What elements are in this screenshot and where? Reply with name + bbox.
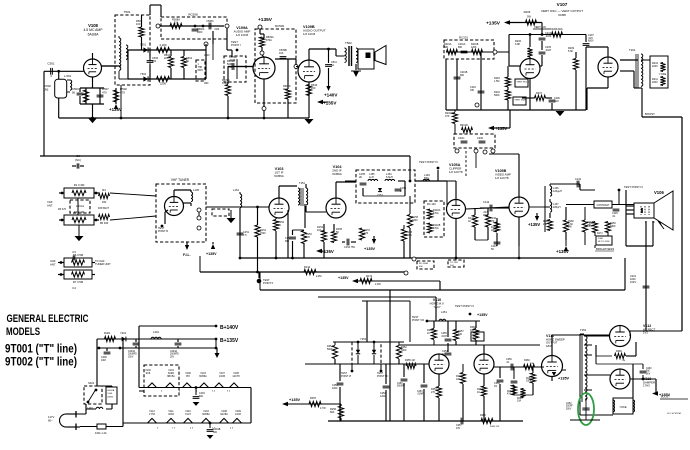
svg-text:1N: 1N [494,385,497,388]
svg-text:ANT.: ANT. [50,262,56,266]
svg-text:T201: T201 [629,48,636,52]
svg-text:120: 120 [152,60,157,63]
svg-text:+135V: +135V [323,101,337,106]
svg-text:L146: L146 [424,173,430,177]
svg-text:200MFD: 200MFD [128,354,137,356]
svg-text:+135V: +135V [206,252,217,256]
svg-text:RC-140: RC-140 [427,203,436,206]
svg-text:R266: R266 [524,359,530,362]
svg-text:22K: 22K [543,223,548,226]
svg-text:3300: 3300 [412,219,418,222]
svg-text:10K: 10K [589,225,594,228]
svg-text:C404A: C404A [170,350,177,353]
svg-text:YOKE: YOKE [619,405,626,409]
svg-text:HOLD: HOLD [472,337,478,339]
svg-text:330K: 330K [610,225,616,228]
svg-text:Y401: Y401 [120,331,127,335]
svg-text:9T002 ("T" line): 9T002 ("T" line) [5,357,77,369]
svg-text:H.V. SYSTEM: H.V. SYSTEM [667,413,681,415]
svg-text:17H3: 17H3 [149,413,155,416]
svg-text:10K: 10K [470,329,475,332]
svg-text:6AU8A: 6AU8A [88,32,99,36]
svg-text:6CB6A: 6CB6A [202,413,210,416]
svg-text:RC-160B: RC-160B [419,263,429,265]
svg-text:470A: 470A [433,227,439,230]
svg-text:2200: 2200 [652,81,658,84]
svg-text:7AU7: 7AU7 [433,305,441,309]
svg-text:1M: 1M [622,360,625,362]
svg-text:BRIGHTNESS: BRIGHTNESS [596,247,614,251]
svg-text:12CT8: 12CT8 [232,375,240,378]
svg-text:Y251: Y251 [360,337,367,341]
svg-text:10A: 10A [517,400,522,403]
svg-text:Y502: Y502 [140,72,147,76]
svg-text:R1 3.3M: R1 3.3M [74,183,85,187]
svg-text:YOKE: YOKE [659,72,666,76]
svg-text:1200: 1200 [380,395,386,398]
svg-text:10K: 10K [458,333,463,336]
svg-text:RC201: RC201 [459,36,468,40]
svg-text:200MFD: 200MFD [170,354,179,356]
svg-text:1μH: 1μH [369,176,374,179]
svg-text:2.2W: 2.2W [375,283,381,286]
svg-text:1MF: 1MF [204,83,209,85]
svg-text:47A: 47A [507,393,512,396]
svg-text:5W: 5W [527,15,531,19]
svg-text:680μ: 680μ [424,178,430,180]
svg-text:C4: C4 [72,286,76,290]
svg-text:R6 3.5M: R6 3.5M [73,253,84,257]
svg-text:C253: C253 [417,391,423,393]
svg-text:6CB8: 6CB8 [558,13,566,17]
svg-text:.0047: .0047 [545,49,552,52]
svg-text:7AU7: 7AU7 [185,413,192,416]
svg-text:F.I.L.: F.I.L. [183,253,191,257]
svg-text:120K: 120K [471,46,477,49]
svg-text:R5 330: R5 330 [100,221,109,225]
svg-text:TO 25Ω: TO 25Ω [450,262,458,264]
svg-text:+135V: +135V [528,222,540,227]
svg-text:Y151: Y151 [377,194,383,197]
svg-text:VERT SIZE: VERT SIZE [515,100,527,102]
svg-text:180μH: 180μH [553,206,561,209]
svg-text:VERT HOLD: VERT HOLD [517,82,530,84]
svg-text:S401: S401 [88,381,95,385]
svg-text:6CB6A: 6CB6A [199,375,207,378]
svg-text:5000PF: 5000PF [397,386,406,388]
svg-text:1500: 1500 [260,232,266,235]
svg-text:680: 680 [285,240,290,243]
svg-text:VHF TUNER: VHF TUNER [171,178,190,182]
svg-text:LOCAL: LOCAL [76,205,85,208]
svg-text:+135V: +135V [364,247,376,251]
svg-text:L401: L401 [153,330,159,334]
svg-text:TEST POINT IV: TEST POINT IV [624,185,643,189]
svg-text:6BC5A: 6BC5A [167,375,175,378]
svg-text:470: 470 [364,232,369,235]
svg-text:7.5: 7.5 [243,234,247,237]
svg-text:800: 800 [460,74,465,77]
svg-text:.0047: .0047 [441,335,448,338]
svg-text:60~: 60~ [48,418,53,422]
svg-text:B+135V: B+135V [220,338,239,344]
svg-text:200V: 200V [483,214,489,217]
svg-text:4.7W: 4.7W [320,407,326,410]
svg-text:C501: C501 [47,62,55,66]
svg-text:1000: 1000 [332,387,338,390]
svg-text:R402A: R402A [108,389,115,392]
svg-text:600V: 600V [588,40,594,43]
svg-text:5A: 5A [331,64,334,67]
svg-text:R257: R257 [310,396,317,400]
svg-text:R268: R268 [517,398,523,400]
svg-text:500K: 500K [494,94,500,97]
svg-text:C142: C142 [483,200,490,204]
svg-text:5KV: 5KV [646,373,651,375]
svg-text:2200: 2200 [652,65,658,68]
svg-text:C510: C510 [204,55,210,57]
svg-text:RC509: RC509 [275,24,284,28]
svg-text:ANT.: ANT. [47,203,53,207]
svg-text:T151: T151 [299,181,306,185]
svg-text:27K: 27K [431,391,436,394]
svg-text:TEST POINT III: TEST POINT III [419,160,438,164]
svg-text:L-501: L-501 [64,74,72,78]
svg-text:RC508: RC508 [188,13,198,17]
svg-text:BOOST: BOOST [645,112,655,116]
svg-text:Y501: Y501 [140,43,147,47]
svg-text:R264: R264 [507,391,513,393]
svg-text:THD: THD [198,67,203,69]
svg-text:R4: R4 [102,188,106,192]
svg-text:C252: C252 [566,403,572,405]
svg-text:C403A: C403A [128,350,135,353]
svg-text:.0039: .0039 [229,59,236,62]
svg-text:10C8: 10C8 [235,413,241,416]
svg-text:1M: 1M [283,88,286,91]
svg-text:9U8: 9U8 [146,372,151,375]
svg-text:2.2M: 2.2M [316,275,321,278]
svg-text:500V: 500V [198,70,204,72]
svg-text:+135V: +135V [258,17,273,23]
svg-text:6CB6A: 6CB6A [274,174,284,178]
svg-text:BOOST: BOOST [661,396,670,399]
svg-text:600: 600 [213,431,218,434]
svg-text:C154 750: C154 750 [344,246,355,249]
svg-text:L151: L151 [233,188,239,192]
svg-text:F401 1.4A: F401 1.4A [95,432,107,435]
svg-text:V107: V107 [557,2,568,7]
svg-text:+135V: +135V [321,249,334,254]
svg-text:R265: R265 [480,414,486,417]
svg-text:1K: 1K [468,220,471,223]
svg-text:220A: 220A [406,234,412,237]
svg-text:100K: 100K [526,381,532,383]
svg-text:TUNER UNIT: TUNER UNIT [95,262,111,266]
svg-text:1K: 1K [477,391,480,394]
svg-text:6.8K: 6.8K [515,43,520,46]
svg-text:5.6Ω: 5.6Ω [108,393,113,395]
svg-text:470: 470 [456,427,461,430]
svg-text:6.8M: 6.8M [222,82,228,85]
svg-text:560Ω 1W: 560Ω 1W [490,426,500,428]
svg-text:5.6μH: 5.6μH [386,176,393,179]
svg-text:100: 100 [136,22,141,26]
svg-text:(M): (M) [44,87,48,91]
svg-text:R267: R267 [526,378,532,380]
svg-text:POINT I: POINT I [231,43,241,47]
svg-text:6CB6A: 6CB6A [332,172,342,176]
svg-text:4000: 4000 [197,31,203,34]
svg-text:18A5: 18A5 [168,413,174,416]
svg-text:22A: 22A [174,22,179,25]
svg-text:HORZ: HORZ [472,334,479,336]
svg-text:C200: C200 [477,137,484,140]
svg-text:330: 330 [470,89,475,92]
svg-text:V106: V106 [654,190,664,195]
svg-text:HI-TO 200K: HI-TO 200K [598,241,610,243]
svg-text:1.5M: 1.5M [494,80,499,83]
svg-text:(WW): (WW) [108,396,114,398]
svg-text:+135V: +135V [558,377,570,381]
svg-text:47K: 47K [445,115,450,118]
svg-text:R3 470: R3 470 [58,208,67,211]
svg-text:5.6K: 5.6K [568,50,573,53]
svg-text:80K: 80K [330,411,335,414]
svg-text:R255 1M: R255 1M [405,359,415,362]
svg-text:L135: L135 [193,188,199,192]
svg-text:2K: 2K [359,176,362,179]
svg-text:220: 220 [311,86,316,90]
svg-text:56: 56 [72,90,76,94]
svg-text:6AU8A: 6AU8A [220,413,228,416]
svg-text:CONTRAST: CONTRAST [597,204,610,207]
svg-text:1/2 10C8: 1/2 10C8 [303,32,316,36]
svg-text:(NC): (NC) [75,158,81,162]
svg-text:TEST POINT IX: TEST POINT IX [455,304,474,308]
svg-text:T502: T502 [345,41,352,45]
svg-text:+140V: +140V [324,93,338,98]
svg-text:R205: R205 [524,10,531,14]
svg-text:.01MF: .01MF [417,394,424,396]
svg-text:C260: C260 [646,368,652,370]
svg-text:500PF: 500PF [566,406,573,408]
svg-text:T501: T501 [124,10,131,14]
svg-text:150V: 150V [128,356,134,358]
svg-text:470: 470 [306,236,311,239]
svg-text:10KV: 10KV [630,281,636,284]
svg-text:POINT II: POINT II [263,281,273,285]
svg-text:470: 470 [102,90,107,94]
svg-text:+135V: +135V [486,21,501,27]
svg-text:470A: 470A [266,39,272,42]
svg-text:POINT VIII: POINT VIII [412,319,424,322]
svg-text:10K: 10K [279,52,284,55]
svg-text:17H3: 17H3 [643,384,650,388]
svg-text:1/2 10C8: 1/2 10C8 [236,33,249,37]
svg-text:R207: R207 [536,92,543,95]
svg-text:10K: 10K [456,378,461,381]
svg-text:560K: 560K [401,349,407,352]
svg-text:1/2 12CT8: 1/2 12CT8 [449,170,463,174]
svg-text:.01M: .01M [214,29,219,31]
svg-text:68K: 68K [444,46,449,49]
svg-text:R208 82A: R208 82A [551,28,562,31]
svg-text:2200: 2200 [160,82,167,86]
svg-text:B+140V: B+140V [220,325,239,331]
svg-text:5K: 5K [491,248,494,251]
svg-text:+135V: +135V [289,398,301,402]
svg-text:.0039: .0039 [545,35,552,38]
svg-text:560K: 560K [327,348,333,351]
svg-text:PIX: PIX [186,375,190,378]
svg-text:GENERAL ELECTRIC: GENERAL ELECTRIC [7,313,89,325]
svg-text:+135V: +135V [477,313,488,317]
svg-text:DISTANT: DISTANT [98,206,109,210]
svg-text:VERT LIN: VERT LIN [534,25,546,29]
svg-text:R401: R401 [104,331,111,335]
svg-text:C508C: C508C [206,20,214,23]
svg-text:100K: 100K [598,238,604,240]
svg-text:120μμH: 120μμH [553,190,562,193]
svg-text:R269: R269 [616,350,622,353]
svg-text:9T001 ("T" line): 9T001 ("T" line) [5,344,77,356]
svg-text:C250: C250 [397,383,403,385]
svg-text:470A: 470A [433,212,439,215]
svg-text:1/2 12CT8: 1/2 12CT8 [495,176,509,180]
svg-text:330: 330 [102,200,107,204]
svg-text:.022: .022 [554,100,559,103]
svg-text:C20C: C20C [458,137,465,140]
svg-text:1K: 1K [427,332,430,335]
svg-text:2,200: 2,200 [160,43,167,47]
svg-text:C144: C144 [575,178,582,181]
svg-text:+135V: +135V [338,276,349,280]
svg-text:25V: 25V [170,356,175,358]
svg-text:R172: R172 [366,274,373,278]
svg-text:22A: 22A [164,57,169,60]
svg-text:10A: 10A [317,229,322,232]
svg-text:220A: 220A [491,229,497,232]
svg-text:POINT VI: POINT VI [341,375,352,378]
svg-text:10CB: 10CB [219,375,225,378]
svg-text:10M: 10M [101,359,106,362]
svg-text:L251: L251 [441,310,447,314]
svg-text:POINT R: POINT R [158,230,168,233]
svg-text:R201D: R201D [460,124,468,127]
svg-text:500V: 500V [566,408,572,410]
svg-text:T251: T251 [580,328,587,332]
svg-text:R144: R144 [304,265,311,269]
svg-text:600: 600 [199,395,204,398]
svg-text:800: 800 [458,46,463,49]
svg-text:MODELS: MODELS [6,326,40,338]
svg-text:R7 3.5M: R7 3.5M [73,280,84,284]
svg-text:R171: R171 [597,232,603,235]
